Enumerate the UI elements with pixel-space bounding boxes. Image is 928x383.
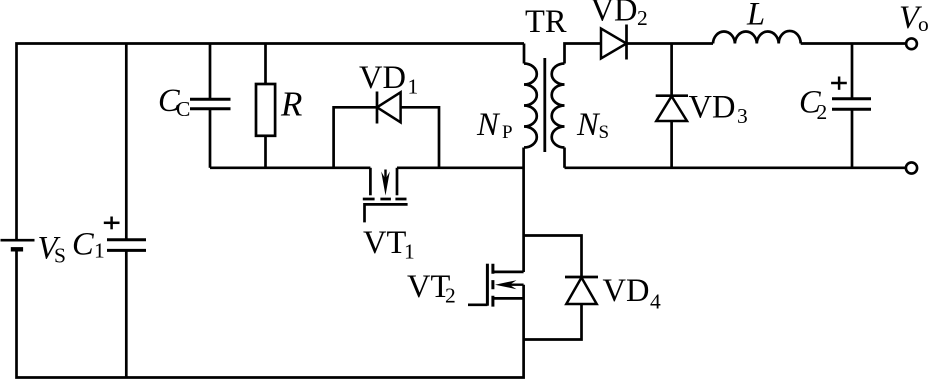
wire VD4 loop top [524, 236, 582, 278]
wire C2 branch lower [851, 110, 854, 168]
wire CC branch upper [209, 44, 212, 100]
diode VD3 [656, 96, 688, 121]
resistor R [256, 84, 275, 136]
svg-text:1: 1 [404, 240, 415, 264]
label VS [38, 231, 66, 268]
wire VD3 branch upper [670, 44, 673, 96]
svg-text:VT: VT [407, 269, 450, 305]
svg-text:C: C [72, 227, 94, 263]
transformer core [543, 58, 546, 152]
wire VD3 branch lower [670, 121, 673, 168]
battery VS [1, 240, 35, 249]
plus sign C2 [831, 77, 847, 90]
transformer TR primary NP [524, 44, 537, 148]
label Vo [899, 0, 928, 36]
svg-text:N: N [576, 107, 601, 143]
wire CC branch lower [209, 109, 212, 168]
svg-text:P: P [502, 122, 513, 143]
label R [280, 85, 302, 124]
wire C2 branch upper [851, 44, 854, 99]
wire VD4 loop bottom [524, 304, 582, 340]
wire top rail and left rail upper [17, 44, 525, 241]
wire VD1 loop right [401, 107, 439, 168]
wire R branch lower [264, 136, 267, 168]
label VT2 [407, 269, 456, 308]
svg-text:VD: VD [689, 90, 736, 126]
svg-text:S: S [54, 244, 66, 268]
wire secondary bottom [565, 166, 907, 169]
label L [746, 0, 765, 33]
svg-text:1: 1 [94, 239, 105, 263]
wire rail2 lower [125, 251, 128, 378]
svg-text:VT: VT [363, 225, 406, 261]
wire rail2 upper [125, 44, 128, 240]
label C1 [72, 227, 105, 263]
svg-text:2: 2 [445, 284, 456, 308]
label VD1 [359, 60, 418, 99]
wire VD2 to L [627, 42, 714, 45]
terminal output top [906, 38, 917, 49]
wire horizontal reset net left [210, 166, 370, 169]
inductor L [713, 31, 801, 44]
wire bottom rail, left rail lower, VT2 source rail [17, 249, 524, 377]
svg-text:C: C [176, 97, 190, 121]
diode VD4 [565, 277, 598, 304]
svg-text:4: 4 [650, 290, 661, 314]
diode VD2 [601, 25, 627, 60]
transistor VT2 [468, 264, 524, 307]
svg-text:S: S [599, 122, 610, 143]
label VT1 [363, 225, 415, 264]
label NS [576, 107, 609, 143]
capacitor C1 [107, 240, 146, 251]
label C2 [799, 85, 827, 125]
svg-text:L: L [746, 0, 765, 33]
svg-text:N: N [476, 107, 501, 143]
label VD2 [591, 0, 648, 30]
label VD4 [603, 273, 662, 314]
svg-text:VD: VD [591, 0, 638, 29]
diode VD1 [377, 92, 401, 124]
svg-text:TR: TR [525, 4, 567, 40]
svg-text:2: 2 [817, 100, 828, 124]
label CC [158, 83, 190, 121]
plus sign C1 [104, 217, 120, 230]
label NP [476, 107, 513, 143]
capacitor CC [190, 99, 231, 108]
label VD3 [689, 90, 748, 129]
wire R branch upper [264, 44, 267, 85]
svg-text:VD: VD [603, 273, 650, 309]
svg-text:o: o [918, 12, 928, 36]
svg-text:R: R [280, 85, 302, 124]
svg-text:3: 3 [737, 104, 748, 128]
label TR [525, 4, 567, 40]
terminal output bottom [906, 162, 917, 173]
wire horizontal reset net right [397, 166, 524, 169]
transistor VT1 [363, 168, 408, 223]
transformer TR secondary NS [552, 44, 601, 168]
svg-text:1: 1 [408, 75, 419, 99]
wire primary bottom rail [522, 148, 525, 273]
wire L to output [801, 42, 906, 45]
capacitor C2 [832, 99, 871, 110]
svg-text:VD: VD [359, 60, 406, 96]
svg-text:2: 2 [637, 6, 648, 30]
wire VD1 loop left [334, 107, 377, 168]
